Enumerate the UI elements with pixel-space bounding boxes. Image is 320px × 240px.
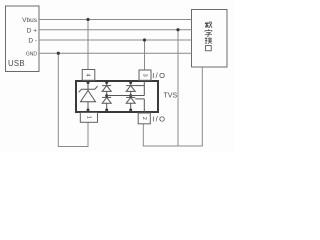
wire D3 anode to mid node bbox=[130, 91, 132, 97]
wire GND drop bbox=[58, 53, 88, 146]
svg-text:I/O: I/O bbox=[152, 115, 166, 124]
wire pin3 internal vertical bbox=[143, 81, 145, 96]
diode D1 triangle bbox=[102, 86, 111, 92]
zener diode Z1 cathode bar with bent ends bbox=[79, 86, 98, 92]
steering diode pair column D1/D2 (middle) bbox=[106, 81, 108, 86]
pin 4 box bbox=[82, 70, 95, 81]
wire GND net bbox=[39, 52, 192, 54]
pin 2 box bbox=[138, 113, 150, 124]
pin 1 box bbox=[80, 113, 97, 123]
label char 接 (drawn strokes) bbox=[205, 37, 212, 44]
diode D2 cathode bar bbox=[102, 96, 111, 98]
svg-text:I/O: I/O bbox=[152, 71, 166, 80]
wire D2 anode to bottom rail bbox=[106, 103, 108, 112]
svg-text:2: 2 bbox=[141, 117, 147, 120]
diode D2 triangle bbox=[102, 97, 111, 103]
svg-text:TVS: TVS bbox=[164, 93, 178, 100]
wire TVS pin2 to interface bottom bbox=[143, 67, 202, 146]
junction zener top bbox=[87, 81, 90, 84]
wire D+ drop to bottom run bbox=[177, 30, 179, 146]
diode D4 triangle bbox=[126, 97, 135, 103]
junction Vbus/pin4 bbox=[86, 18, 89, 21]
junction GND drop bbox=[57, 52, 60, 55]
junction middle column bottom bbox=[105, 109, 108, 112]
wire D- net bbox=[39, 39, 192, 41]
junction middle column top bbox=[105, 81, 108, 84]
diode D4 cathode bar bbox=[126, 96, 135, 98]
junction right column bottom bbox=[129, 109, 132, 112]
diode D3 triangle bbox=[126, 86, 135, 92]
diode D3 cathode bar bbox=[126, 85, 135, 87]
label char 数 (drawn strokes) bbox=[205, 22, 212, 28]
digital interface box (数字接口) bbox=[192, 10, 228, 68]
pin 3 box bbox=[139, 70, 151, 80]
svg-text:Vbus: Vbus bbox=[22, 17, 38, 24]
wire D+ net bbox=[39, 29, 192, 31]
svg-text:USB: USB bbox=[8, 59, 25, 68]
junction right column top bbox=[129, 81, 132, 84]
zener diode Z1 triangle bbox=[81, 91, 96, 102]
wire D4 anode to bottom rail bbox=[130, 103, 132, 112]
wire Vbus net bbox=[39, 19, 192, 21]
wire mid nodes long horizontal bbox=[107, 95, 145, 97]
steering diode pair column D3/D4 (right) bbox=[130, 81, 132, 86]
label char 口 (drawn strokes) bbox=[206, 46, 212, 51]
svg-text:D -: D - bbox=[28, 38, 37, 45]
wire pin2 internal vertical bbox=[143, 99, 145, 112]
zener diode Z1 column wire bbox=[87, 81, 89, 91]
TVS package body U1 bbox=[76, 81, 158, 112]
wire D- to TVS pin3 bbox=[144, 40, 146, 70]
wire D4 bar extension to pin2 vertical bbox=[135, 98, 144, 100]
junction middle mid node bbox=[105, 94, 108, 97]
junction right mid node bbox=[129, 94, 132, 97]
wire Vbus to TVS pin4 bbox=[87, 20, 89, 70]
junction zener bottom bbox=[87, 109, 90, 112]
label char 字 (drawn strokes) bbox=[205, 29, 212, 36]
USB connector box J1 bbox=[6, 6, 40, 72]
svg-text:4: 4 bbox=[85, 73, 91, 76]
svg-text:GND: GND bbox=[26, 52, 38, 58]
wire D3 bar extension to pin3 vertical bbox=[135, 85, 144, 87]
svg-text:3: 3 bbox=[141, 74, 147, 77]
wire D1 anode to mid node bbox=[106, 91, 108, 97]
junction D+ drop bbox=[176, 28, 179, 31]
junction D-/pin3 bbox=[143, 38, 146, 41]
svg-text:D +: D + bbox=[27, 27, 38, 34]
diode D1 cathode bar bbox=[102, 85, 111, 87]
svg-text:1: 1 bbox=[86, 116, 92, 119]
